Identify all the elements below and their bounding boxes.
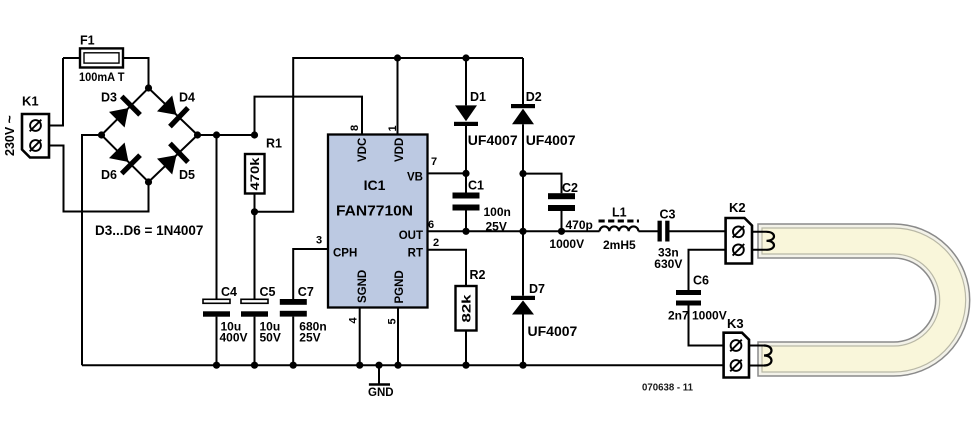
svg-text:C6: C6	[693, 274, 709, 288]
diode D7	[511, 296, 535, 315]
capacitor C6	[676, 290, 701, 306]
wire C4 to ground rail	[216, 317, 218, 366]
svg-text:UF4007: UF4007	[526, 132, 576, 148]
svg-text:R2: R2	[470, 268, 486, 282]
svg-text:D3: D3	[101, 91, 117, 105]
svg-text:50V: 50V	[260, 331, 281, 345]
capacitor C5 electrolytic	[241, 299, 268, 316]
OUT wire	[428, 230, 726, 232]
svg-text:1000V: 1000V	[692, 309, 727, 323]
junction C4 rail	[213, 362, 220, 369]
capacitor C4 electrolytic	[203, 299, 230, 316]
svg-text:6: 6	[428, 219, 434, 231]
wire bridge left to ground rail	[82, 135, 102, 365]
svg-text:K3: K3	[727, 316, 744, 331]
svg-text:1: 1	[387, 125, 399, 131]
junction C1 OUT	[462, 228, 469, 235]
svg-text:C4: C4	[221, 285, 237, 299]
svg-text:GND: GND	[368, 387, 394, 399]
svg-text:25V: 25V	[486, 220, 507, 234]
svg-text:C1: C1	[468, 179, 484, 193]
op-amp / ballast IC U1 FAN7710N	[328, 135, 428, 308]
wire C1 to OUT	[465, 211, 467, 232]
junction D1 top	[462, 54, 469, 61]
diode D5	[157, 142, 190, 175]
resistor R1 470k	[245, 154, 265, 194]
connector K3	[724, 333, 749, 378]
svg-text:R1: R1	[266, 137, 282, 151]
svg-text:K1: K1	[22, 94, 39, 109]
junction D7 rail	[519, 362, 526, 369]
svg-text:470k: 470k	[248, 157, 262, 190]
svg-text:L1: L1	[612, 206, 627, 220]
svg-text:C3: C3	[660, 208, 676, 222]
junction R2 rail	[462, 362, 469, 369]
svg-text:1000V: 1000V	[549, 237, 584, 251]
wire C7 to ground rail	[292, 317, 294, 366]
svg-text:UF4007: UF4007	[468, 132, 518, 148]
svg-text:3: 3	[316, 235, 322, 247]
connector K2	[726, 218, 752, 264]
svg-text:UF4007: UF4007	[528, 323, 578, 339]
svg-text:RT: RT	[408, 248, 423, 260]
wire K1 top to fuse	[49, 58, 63, 126]
wire IC pin 7 VB to C1	[428, 172, 467, 174]
wire C5 to ground rail	[254, 317, 256, 366]
capacitor C3	[658, 221, 670, 242]
svg-text:C5: C5	[260, 285, 276, 299]
svg-text:82k: 82k	[460, 294, 474, 322]
svg-text:VB: VB	[407, 172, 423, 184]
svg-text:IC1: IC1	[364, 177, 386, 193]
svg-text:400V: 400V	[220, 331, 248, 345]
svg-text:F1: F1	[80, 34, 95, 48]
junction bridge left	[98, 131, 105, 138]
wire node to C4	[216, 135, 218, 299]
lamp filament at K3	[764, 346, 772, 366]
junction D2-D7 OUT	[519, 228, 526, 235]
junction C5 rail	[251, 362, 258, 369]
svg-text:D1: D1	[470, 90, 486, 104]
wire K1 bottom to bridge bottom	[49, 146, 149, 212]
svg-text:D4: D4	[179, 91, 195, 105]
svg-text:D5: D5	[179, 168, 195, 182]
wire bridge diamond	[102, 88, 198, 182]
diode D6	[109, 143, 142, 176]
diode D1	[454, 105, 478, 126]
wire K2 bottom to C6	[689, 250, 726, 290]
wire C6 to K3 top	[689, 306, 724, 346]
wire fuse to bridge top	[63, 58, 149, 88]
fluorescent tube lamp	[758, 224, 970, 376]
fuse F1	[80, 48, 123, 67]
svg-text:C2: C2	[562, 181, 578, 195]
junction SGND rail	[356, 362, 363, 369]
junction bridge bottom	[145, 178, 152, 185]
lamp filament at K2	[767, 232, 775, 250]
junction PGND rail	[394, 362, 401, 369]
wire K3 to lamp	[749, 346, 764, 366]
svg-text:2: 2	[433, 237, 439, 249]
wire IC pin 1 VDD	[397, 58, 399, 135]
capacitor C2	[548, 193, 575, 211]
wire R1 top to IC pin 8	[255, 97, 363, 135]
ground	[368, 365, 394, 399]
capacitor C1	[453, 193, 480, 211]
capacitor C7	[280, 299, 307, 317]
connector K1	[22, 114, 49, 158]
svg-text:630V: 630V	[654, 257, 682, 271]
junction VB-C1-D1	[462, 170, 469, 177]
svg-text:D7: D7	[529, 282, 545, 296]
wire IC pin 2 RT to R2	[428, 250, 467, 286]
wire R1 bottom to C5	[254, 212, 256, 299]
junction R1 bottom	[251, 208, 258, 215]
svg-text:PGND: PGND	[394, 270, 406, 303]
ground rail	[82, 364, 724, 366]
wire IC pin 5 PGND	[397, 308, 399, 365]
svg-text:D2: D2	[526, 90, 542, 104]
junction bridge top	[145, 84, 152, 91]
svg-text:OUT: OUT	[399, 230, 423, 242]
svg-text:070638 - 11: 070638 - 11	[642, 382, 693, 394]
svg-text:D3...D6 = 1N4007: D3...D6 = 1N4007	[95, 223, 203, 238]
wire C2 branch	[523, 174, 562, 232]
svg-text:100mA T: 100mA T	[79, 70, 125, 84]
svg-text:7: 7	[431, 156, 437, 168]
svg-text:2mH5: 2mH5	[603, 238, 636, 252]
wire IC pin 4 SGND	[359, 308, 361, 365]
wire D7 branch	[522, 231, 524, 365]
wire D2 branch	[522, 58, 524, 231]
svg-text:8: 8	[349, 125, 361, 131]
diode D3	[109, 95, 142, 128]
svg-text:FAN7710N: FAN7710N	[336, 204, 413, 220]
diode D2	[511, 104, 535, 124]
svg-text:4: 4	[348, 317, 360, 324]
inductor L1	[599, 221, 640, 231]
junction bridge right	[194, 131, 201, 138]
svg-text:K2: K2	[729, 200, 746, 215]
junction GND rail	[375, 362, 382, 369]
wire bridge right to R1 top	[198, 134, 255, 136]
junction R1 top	[251, 131, 258, 138]
svg-text:SGND: SGND	[357, 270, 369, 303]
junction C2 OUT	[558, 228, 565, 235]
svg-text:5: 5	[387, 318, 399, 324]
wire D1 branch	[465, 58, 467, 193]
svg-text:CPH: CPH	[333, 248, 357, 260]
svg-text:470p: 470p	[566, 218, 593, 232]
svg-text:25V: 25V	[299, 331, 320, 345]
svg-text:C7: C7	[298, 285, 314, 299]
wire IC pin 3 CPH to C7	[293, 249, 328, 299]
diode D4	[157, 96, 190, 129]
junction C7 rail	[290, 362, 297, 369]
svg-text:230V ~: 230V ~	[1, 115, 17, 156]
svg-text:D6: D6	[101, 168, 117, 182]
wire K2 to lamp	[752, 232, 767, 250]
svg-text:VDC: VDC	[357, 138, 369, 162]
wire R1 bottom to top rail	[255, 58, 524, 212]
resistor R2 82k	[456, 286, 477, 331]
svg-text:100n: 100n	[484, 205, 511, 219]
junction C2 branch	[519, 170, 526, 177]
wire R2 to ground rail	[465, 331, 467, 366]
svg-text:VDD: VDD	[394, 138, 406, 162]
svg-text:2n7: 2n7	[668, 309, 689, 323]
junction node C4	[213, 131, 220, 138]
junction VDD top wire	[394, 54, 401, 61]
